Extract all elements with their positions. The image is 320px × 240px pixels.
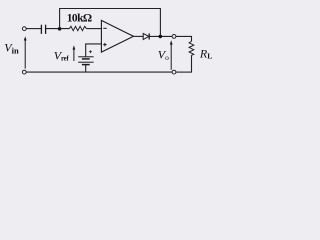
output terminal (open circle) (172, 35, 176, 39)
svg-text:10kΩ: 10kΩ (67, 12, 92, 24)
wire load resistor to ground rail (191, 55, 193, 72)
arrow Vref polarity (up) (73, 45, 76, 61)
label Vref (54, 49, 70, 63)
diode D1 (143, 33, 149, 39)
capacitor C1 (41, 25, 45, 34)
background (0, 0, 220, 82)
label Vin (4, 41, 19, 56)
ground terminal left (open circle) (22, 70, 26, 74)
input terminal (open circle) (22, 27, 26, 31)
wire battery bottom to ground rail (85, 65, 87, 73)
arrow Vin (up) (24, 36, 27, 68)
wire feedback loop (junction up, across top, down to output node) (60, 9, 161, 37)
wire bottom rail (right segment) (176, 71, 192, 73)
label RL (199, 47, 212, 61)
wire bottom rail (left segment) (26, 71, 172, 73)
wire resistor to op-amp inverting input (86, 28, 101, 30)
resistor RL (vertical zigzag) (189, 41, 194, 55)
node A (junction dot after capacitor) (58, 27, 62, 31)
wire output terminal to load resistor (176, 36, 192, 41)
wire op-amp noninverting input to battery top (86, 44, 102, 57)
value label 10kOhm (67, 12, 92, 24)
wire diode to output node (149, 35, 172, 37)
arrow Vo (up) (170, 40, 173, 70)
wire op-amp output to diode (133, 35, 143, 37)
op-amp U1 (101, 20, 133, 52)
wire input terminal to capacitor (26, 28, 41, 30)
wire capacitor to resistor (46, 28, 70, 30)
battery plus polarity mark (89, 50, 92, 53)
label Vo (158, 48, 169, 63)
resistor 10k (horizontal zigzag) (69, 26, 86, 30)
node B (junction dot at output/feedback) (159, 35, 163, 39)
bottom output terminal (open circle) (172, 70, 176, 74)
battery Vref (78, 57, 93, 65)
